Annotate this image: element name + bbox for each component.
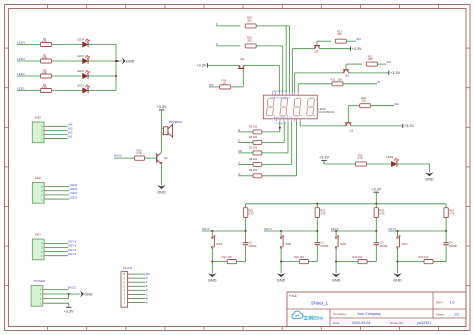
pin 1 [43,302,48,304]
net LED1 [49,198,70,200]
net D [132,289,145,291]
svg-text:Q6: Q6 [164,156,168,160]
svg-text:DP: DP [238,149,242,153]
power +3.3V [402,124,404,128]
wire [88,90,116,92]
svg-text:R17 100: R17 100 [222,255,232,259]
svg-text:POWER: POWER [34,279,46,283]
svg-text:R11: R11 [331,77,336,81]
wire [262,152,288,154]
svg-text:GND: GND [157,190,166,194]
resistor R5 200 [253,130,262,134]
svg-text:REV:: REV: [436,301,443,305]
svg-text:KEY1: KEY1 [202,227,210,231]
transistor Q5 [314,45,320,47]
svg-text:W3: W3 [209,83,214,87]
power +3.3V [321,159,326,161]
pin 3 [44,190,49,192]
svg-text:Q5: Q5 [315,50,319,54]
svg-text:LED1: LED1 [17,87,25,91]
svg-text:4.7K: 4.7K [449,212,455,216]
svg-text:Drawn By:: Drawn By: [390,321,404,325]
wire emitter [351,125,403,127]
wire [397,163,430,165]
ground GND [122,58,126,65]
resistor R21 4.7K [245,204,247,208]
svg-text:Q4: Q4 [240,57,244,61]
svg-text:GND: GND [425,178,434,182]
resistor R20 100 [398,261,425,263]
net W4 [371,105,394,107]
svg-text:C: C [238,160,240,164]
pin 4 [43,288,48,290]
svg-text:GND: GND [84,293,93,297]
net W1 [377,63,386,65]
junction [396,261,398,263]
resistor R16 2K [220,85,231,89]
wire [47,302,68,304]
resistor R4 1.5K [41,89,52,93]
wire [262,175,297,177]
svg-text:LED4: LED4 [77,38,84,42]
wire [335,262,337,274]
svg-text:DUAN: DUAN [123,266,132,270]
pin 3 [44,247,49,249]
wire [161,163,163,185]
wire [116,60,122,62]
junction [335,261,337,263]
wire [88,44,116,46]
svg-text:100NF: 100NF [449,244,457,248]
svg-text:R20 100: R20 100 [419,255,429,259]
switch SW4 [397,231,399,236]
svg-text:E: E [238,128,240,132]
wire [162,127,164,129]
pin 2 [44,251,49,253]
wire [256,45,283,47]
wire [88,75,116,77]
ground GND [332,273,341,277]
wire [256,25,289,27]
transistor Q1 [345,122,351,124]
svg-text:1.5K: 1.5K [42,39,48,43]
buzzer BUZZER2 [163,127,168,135]
wire collector [300,125,345,127]
svg-text:Q1: Q1 [350,129,354,133]
transistor Q6 [156,153,158,163]
svg-text:4.7K: 4.7K [357,156,363,160]
junction [211,261,213,263]
pin 1 [44,198,49,200]
resistor R17 100 [212,261,227,263]
svg-text:TITLE:: TITLE: [289,294,298,298]
net KEY2 [49,251,68,253]
wire [397,262,399,274]
LED LED6 [367,163,392,165]
svg-text:LED6: LED6 [386,155,393,159]
wire collector [295,72,344,74]
junction [335,230,337,232]
svg-text:W2: W2 [356,37,361,41]
display bottom pins [276,119,278,122]
transistor Q4 [238,68,244,70]
svg-text:LED2: LED2 [77,69,84,73]
wire [262,163,292,165]
svg-text:+3.3V: +3.3V [64,309,74,313]
pin 4 [44,242,49,244]
svg-text:ABCDEFGDP: ABCDEFGDP [274,116,293,119]
svg-text:+3.3V: +3.3V [371,187,381,191]
svg-text:SR410561N: SR410561N [318,110,334,114]
svg-text:+3.3V: +3.3V [390,71,400,75]
resistor R15 200 [245,44,256,48]
junction [280,261,282,263]
ground GND [208,273,217,277]
svg-text:B: B [378,80,380,84]
resistor R2 1.5K [41,59,52,63]
net W4 [49,125,68,127]
svg-text:CADEGFABDP: CADEGFABDP [272,97,292,100]
ground GND [425,172,434,176]
net DP [132,273,145,275]
svg-text:Company:: Company: [333,312,347,316]
svg-text:BUZZ: BUZZ [114,154,122,158]
svg-text:+3.3V: +3.3V [404,124,414,128]
net G [132,277,145,279]
pin 4 [44,125,49,127]
power +3.3V [207,63,209,67]
svg-text:KEY3: KEY3 [331,227,339,231]
svg-text:KEY1: KEY1 [68,252,76,256]
wire cathode bus [115,45,117,91]
resistor R6 200 [253,140,262,144]
junction [375,203,377,205]
svg-text:BUZZER2: BUZZER2 [169,120,183,124]
svg-text:121110 9 8 7 6 5 4: 121110 9 8 7 6 5 4 [272,91,287,93]
net A [132,302,145,304]
net C [132,293,145,295]
svg-text:4.7K: 4.7K [379,212,385,216]
svg-text:Q3: Q3 [345,74,349,78]
power +3.3V [66,306,71,308]
svg-text:SW4: SW4 [402,242,409,246]
junction [279,127,281,129]
svg-text:200: 200 [361,99,366,103]
svg-text:Sheet:: Sheet: [436,313,445,317]
svg-text:200: 200 [368,57,373,61]
wire [262,131,280,133]
pin 2 [44,194,49,196]
svg-text:GND: GND [126,60,135,64]
svg-text:R8 200: R8 200 [249,157,258,161]
LED LED3 [52,60,83,62]
power +3.3V [388,71,390,75]
svg-text:Your Company: Your Company [357,312,381,316]
resistor R1 1.5K [41,43,52,47]
junction [116,60,118,62]
capacitor C1 100NF [245,231,247,243]
wire base [242,69,244,87]
junction [115,60,117,62]
resistor R19 100 [336,261,358,263]
LED LED2 [52,75,83,77]
svg-text:200: 200 [247,38,252,42]
wire +3.3V rail [246,203,447,205]
svg-text:GND: GND [277,279,286,283]
wire [145,157,157,159]
junction [211,230,213,232]
junction [245,230,247,232]
svg-text:1/1: 1/1 [454,313,459,317]
net KEY4 [49,242,68,244]
pin 1 [44,137,49,139]
title block frame [287,292,466,327]
wire base [347,106,349,123]
switch SW1 [211,231,213,236]
power +3.3V [374,191,379,193]
svg-text:SW3: SW3 [340,242,347,246]
svg-text:200: 200 [338,77,343,81]
junction [316,203,318,205]
resistor R12 200 [366,62,377,66]
svg-text:4.7K: 4.7K [249,212,255,216]
pin 3 [43,293,48,295]
pin 2 [44,133,49,135]
capacitor C3 100NF [375,231,377,243]
LED LED1 [52,90,83,92]
resistor R25 4.7K [135,156,145,160]
transistor Q3 [343,69,349,71]
resistor R10 200 [360,104,371,108]
display top pins [272,92,274,95]
logo EasyEDA [292,311,303,319]
resistor R26 4.7K [356,162,367,166]
junction [68,293,70,295]
resistor R8 200 [253,162,262,166]
svg-text:LED3: LED3 [77,54,84,58]
resistor R3 1.5K [41,74,52,78]
wire [298,83,332,85]
resistor R22 4.7K [316,204,318,208]
svg-text:+3.3V: +3.3V [196,64,206,68]
svg-text:LED2: LED2 [17,72,25,76]
svg-text:100NF: 100NF [249,244,257,248]
resistor R13 200 [335,39,346,43]
switch SW2 [280,231,282,236]
pin 4 [44,186,49,188]
junction [280,230,282,232]
wire emitter [349,72,389,74]
svg-text:LED3: LED3 [17,57,25,61]
ground GND [80,291,84,298]
svg-text:LED1: LED1 [70,195,78,199]
resistor R18 100 [281,261,299,263]
net LED4 [49,186,70,188]
wire [280,262,282,274]
pin 2 [43,298,48,300]
svg-text:R7 200: R7 200 [249,145,258,149]
svg-text:R5 200: R5 200 [249,124,258,128]
junction [115,75,117,77]
svg-text:LED4: LED4 [17,41,25,45]
resistor R14 200 [245,24,256,28]
net W1 [49,137,68,139]
wire [397,248,399,261]
wire [335,248,337,261]
svg-text:LED: LED [35,176,42,180]
svg-text:KEY2: KEY2 [264,227,272,231]
net W3 [49,129,68,131]
wire [47,298,68,300]
svg-text:200: 200 [337,32,342,36]
svg-text:GND: GND [208,279,217,283]
svg-text:D: D [238,138,240,142]
junction [445,230,447,232]
svg-text:1.5K: 1.5K [42,71,48,75]
svg-text:SW2: SW2 [285,242,292,246]
wire [211,248,213,261]
svg-text:LED1: LED1 [77,84,84,88]
svg-text:+3.3V: +3.3V [352,47,362,51]
svg-text:R6 200: R6 200 [249,135,258,139]
svg-text:+3.3V: +3.3V [157,105,167,109]
wire base [345,64,347,70]
net W2 [49,133,68,135]
svg-text:W1: W1 [68,135,73,139]
svg-text:px12321: px12321 [418,321,432,325]
power +3.3V [159,109,164,111]
svg-text:1 2 3 4 5 6 7 8: 1 2 3 4 5 6 7 8 [274,123,287,125]
capacitor C2 100NF [316,231,318,243]
svg-text:2020-03-04: 2020-03-04 [352,321,370,325]
svg-text:1.0: 1.0 [450,301,455,305]
svg-text:R18 100: R18 100 [294,255,304,259]
svg-text:WEI: WEI [35,115,41,119]
wire collector [292,48,314,50]
LED LED4 [52,44,83,46]
pin 1 [44,255,49,257]
wire [211,262,213,274]
ground GND [393,273,402,277]
svg-text:立创EDA: 立创EDA [304,315,324,322]
svg-text:Date:: Date: [333,321,340,325]
power +3.3V [350,47,352,51]
junction [396,230,398,232]
svg-text:SW1: SW1 [216,242,223,246]
svg-text:1.5K: 1.5K [42,56,48,60]
resistor R9 200 [253,174,262,178]
resistor R7 200 [253,151,262,155]
svg-text:KEY: KEY [35,233,41,237]
net W2 [346,40,356,42]
svg-text:R9 200: R9 200 [249,168,258,172]
svg-text:Sheet_1: Sheet_1 [311,301,329,306]
svg-text:100NF: 100NF [320,244,328,248]
wire [280,248,282,261]
svg-text:R19 100: R19 100 [353,255,363,259]
wire emitter [320,48,351,50]
svg-text:W1: W1 [387,60,392,64]
svg-text:1.5K: 1.5K [42,85,48,89]
resistor R11 200 [332,82,343,86]
svg-text:F: F [216,22,218,26]
svg-text:200: 200 [247,18,252,22]
resistor R24 4.7K [445,204,447,208]
wire base [316,41,318,45]
net KEY1 [49,255,68,257]
net LED3 [49,190,70,192]
net F [132,281,145,283]
svg-text:GND: GND [393,279,402,283]
net E [132,285,145,287]
display U1 LEDK SR410561N [263,95,317,119]
wire [47,293,80,295]
capacitor C4 100NF [445,231,447,243]
junction [375,230,377,232]
svg-text:BUZZ: BUZZ [68,286,76,290]
pin 3 [44,129,49,131]
wire [262,141,284,143]
ground GND [157,185,166,189]
svg-text:W4: W4 [394,102,399,106]
svg-text:+3.3V: +3.3V [319,156,329,160]
svg-text:4.7K: 4.7K [320,212,326,216]
switch SW3 [335,231,337,236]
net LED2 [49,194,70,196]
wire [208,64,239,66]
net BUZZ [47,288,68,290]
ground GND [277,273,286,277]
svg-text:100NF: 100NF [379,244,387,248]
svg-text:KEY4: KEY4 [388,227,396,231]
junction [316,230,318,232]
svg-text:2K: 2K [223,81,226,85]
svg-text:4.7K: 4.7K [136,151,142,155]
wire [88,60,116,62]
net B [343,83,378,85]
resistor R23 4.7K [375,204,377,208]
net B [132,297,145,299]
svg-text:A: A [146,300,148,304]
net KEY3 [49,247,68,249]
wire collector [244,64,279,66]
svg-text:GND: GND [332,279,341,283]
